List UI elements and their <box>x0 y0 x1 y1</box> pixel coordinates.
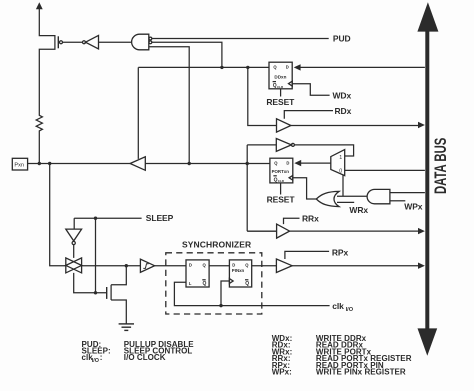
svg-text:SLEEP: SLEEP <box>146 213 174 223</box>
svg-text:WDx: WDx <box>333 91 352 101</box>
svg-text:RESET: RESET <box>266 97 295 107</box>
svg-text:L: L <box>189 281 192 286</box>
svg-text:I/O: I/O <box>92 358 99 364</box>
svg-text:WRx: WRx <box>349 205 368 215</box>
svg-text:WPx: WPx <box>404 202 422 212</box>
svg-text:Pxn: Pxn <box>14 163 24 169</box>
svg-text:RPx: RPx <box>332 248 349 258</box>
svg-text:I/O: I/O <box>346 307 354 313</box>
svg-text:PORTxn: PORTxn <box>272 169 290 174</box>
svg-text:DDxn: DDxn <box>274 74 286 79</box>
svg-text:clk: clk <box>332 301 344 311</box>
svg-text:CLR: CLR <box>277 85 284 89</box>
svg-text:I/O CLOCK: I/O CLOCK <box>124 353 166 362</box>
svg-text:PUD: PUD <box>333 33 351 43</box>
svg-text:PINxn: PINxn <box>232 268 245 273</box>
svg-text:D: D <box>286 65 289 70</box>
svg-text:RDx: RDx <box>335 106 352 116</box>
svg-text:CLR: CLR <box>278 179 285 183</box>
svg-text:D: D <box>189 262 192 267</box>
svg-text:Q: Q <box>203 281 207 287</box>
svg-text:WPx:: WPx: <box>272 368 292 377</box>
svg-text:D: D <box>232 262 235 267</box>
svg-text:1: 1 <box>339 155 342 161</box>
svg-text:D: D <box>286 161 289 166</box>
svg-text:0: 0 <box>339 169 342 175</box>
svg-text:DATA BUS: DATA BUS <box>431 138 450 194</box>
svg-text:RESET: RESET <box>267 195 296 205</box>
svg-text:RRx: RRx <box>302 214 319 224</box>
svg-text:Q: Q <box>245 281 249 287</box>
svg-text:SYNCHRONIZER: SYNCHRONIZER <box>182 239 251 249</box>
svg-text:WRITE PINx REGISTER: WRITE PINx REGISTER <box>316 368 406 377</box>
svg-text::: : <box>100 353 103 362</box>
